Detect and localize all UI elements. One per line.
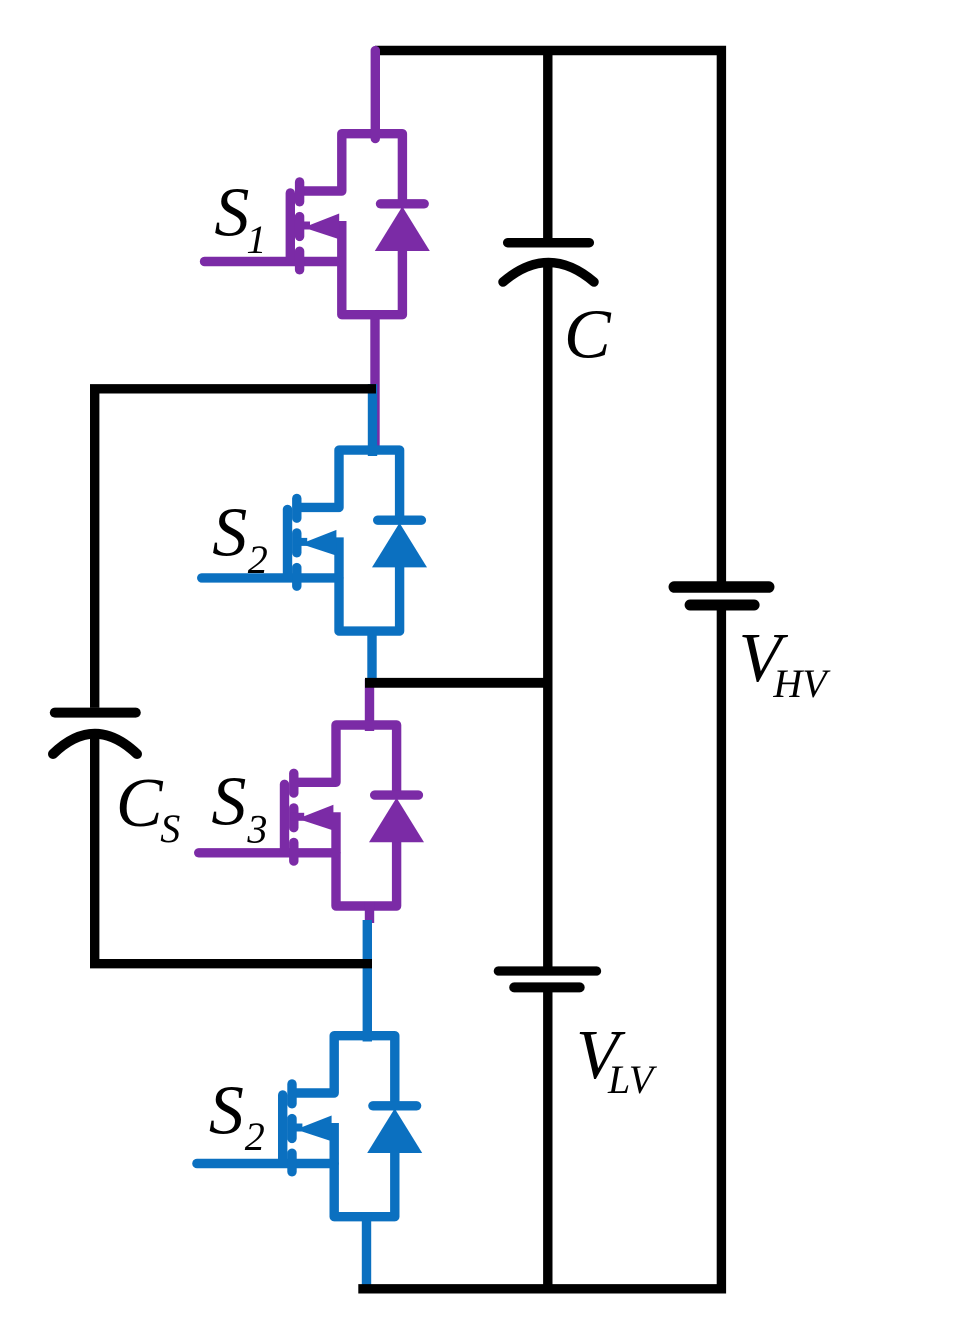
svg-text:C: C xyxy=(116,765,164,842)
svg-text:S: S xyxy=(209,1073,244,1150)
wire top rail and right rail upper segment xyxy=(375,51,721,588)
wire node A to S2 drain (blue) xyxy=(368,384,377,456)
svg-text:2: 2 xyxy=(248,537,268,582)
wire Cs loop top and left upper segment (node A) xyxy=(95,389,376,708)
wire middle column upper segment xyxy=(543,46,552,243)
svg-text:3: 3 xyxy=(246,806,267,851)
transistor S3 xyxy=(199,725,424,906)
capacitor C curved plate xyxy=(503,263,594,283)
voltage source V_LV long plate xyxy=(498,966,596,975)
capacitor C flat plate xyxy=(508,238,590,248)
wire Cs loop left lower segment and bottom (node C) xyxy=(95,734,372,964)
svg-text:HV: HV xyxy=(772,661,831,706)
wire S1 drain (purple, round tip over rail) xyxy=(371,51,380,139)
capacitor Cs flat plate xyxy=(55,708,136,718)
voltage source V_HV long plate xyxy=(674,581,768,593)
wire S2 source to node B (blue) xyxy=(367,627,376,687)
svg-text:1: 1 xyxy=(246,217,266,262)
svg-text:C: C xyxy=(564,296,612,373)
svg-text:S: S xyxy=(214,174,249,251)
transistor S2 bottom xyxy=(197,1036,422,1217)
voltage source V_LV short plate xyxy=(514,982,580,992)
svg-text:S: S xyxy=(160,806,180,851)
wire node C to S2 bottom drain (blue) xyxy=(363,920,372,1042)
transistor S1 xyxy=(205,134,430,315)
svg-text:LV: LV xyxy=(607,1057,658,1102)
wire node B horizontal xyxy=(365,678,548,688)
svg-text:S: S xyxy=(212,495,247,572)
wire middle column lower segment xyxy=(543,987,552,1288)
voltage source V_HV short plate xyxy=(690,600,754,611)
wire S1 source to node A (purple) xyxy=(370,310,379,453)
svg-text:S: S xyxy=(211,763,246,840)
wire right rail lower segment and bottom rail xyxy=(358,605,721,1289)
svg-text:2: 2 xyxy=(245,1114,265,1159)
wire middle column mid segment xyxy=(543,263,552,972)
transistor S2 upper xyxy=(202,450,427,631)
capacitor Cs curved plate xyxy=(53,734,137,754)
wire S3 source to node C (purple) xyxy=(365,902,374,924)
wire node B to S3 drain (purple) xyxy=(365,679,374,731)
wire S2 bottom source to bottom rail (blue) xyxy=(362,1212,371,1288)
